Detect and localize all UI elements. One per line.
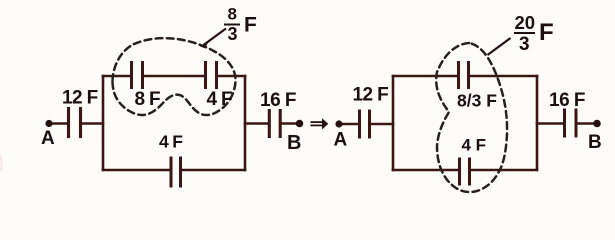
svg-text:8: 8 — [228, 5, 237, 24]
svg-text:B: B — [287, 132, 301, 154]
svg-text:8/3 F: 8/3 F — [457, 91, 497, 111]
svg-text:F: F — [244, 14, 257, 37]
svg-text:3: 3 — [228, 24, 238, 44]
svg-text:A: A — [41, 128, 55, 149]
svg-text:A: A — [334, 130, 348, 151]
svg-text:12 F: 12 F — [353, 85, 389, 106]
svg-text:4 F: 4 F — [207, 89, 232, 110]
svg-text:16 F: 16 F — [260, 90, 296, 111]
svg-text:4 F: 4 F — [159, 132, 183, 152]
svg-text:F: F — [539, 19, 554, 46]
svg-text:12 F: 12 F — [62, 88, 98, 109]
svg-text:3: 3 — [519, 34, 530, 55]
svg-text:20: 20 — [515, 12, 536, 33]
svg-text:4 F: 4 F — [462, 136, 487, 155]
svg-text:B: B — [588, 132, 602, 153]
svg-text:16 F: 16 F — [549, 90, 585, 111]
svg-text:8 F: 8 F — [135, 89, 160, 110]
